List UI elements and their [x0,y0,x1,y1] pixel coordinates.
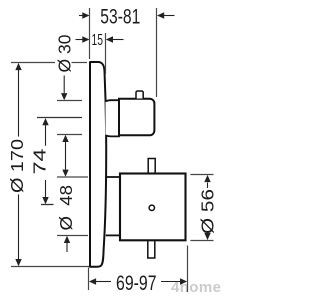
extension line wall (x=90 top) [89,8,91,59]
svg-text:Ø 170: Ø 170 [7,139,27,193]
bottom tab on knob [148,240,155,258]
shared double arrow between Ø30 bottom and Ø48 top [65,140,67,171]
svg-text:53-81: 53-81 [100,6,140,29]
svg-text:Ø 56: Ø 56 [198,189,218,234]
escutcheon plate (side view) [90,62,106,267]
Ø30 top arrow (down) [63,76,65,94]
center hole on knob [149,205,154,210]
svg-text:15: 15 [92,32,104,49]
dim Ø48 ticks [57,176,88,178]
dim Ø170 ticks [11,62,55,64]
dim 15 [76,39,124,41]
dim 74 centerline ticks [37,117,82,119]
Ø170 dim line [18,70,20,137]
top tab on knob [148,159,155,175]
svg-text:Ø 48: Ø 48 [56,185,76,231]
svg-text:69-97: 69-97 [116,272,157,295]
dim 69-97 extension lines [88,268,90,291]
volume knob sleeve [106,176,120,178]
69-97 dim line [96,281,111,283]
handle neck [106,100,120,136]
extension line plate face (15 dim) [105,33,107,74]
dim Ø56 ticks [190,174,213,176]
74 dim line [45,125,47,146]
dim 53-81 [79,15,175,17]
Ø56 dim line [207,183,209,189]
safety button on handle [136,91,143,99]
volume knob body [120,174,186,241]
dim Ø30 ticks [57,100,82,102]
temperature handle body [119,99,154,136]
svg-text:74: 74 [30,148,50,174]
svg-text:Ø 30: Ø 30 [55,34,75,72]
extension line handle tip (53-81) [156,8,158,97]
Ø48 bottom arrow (up) [66,243,68,253]
